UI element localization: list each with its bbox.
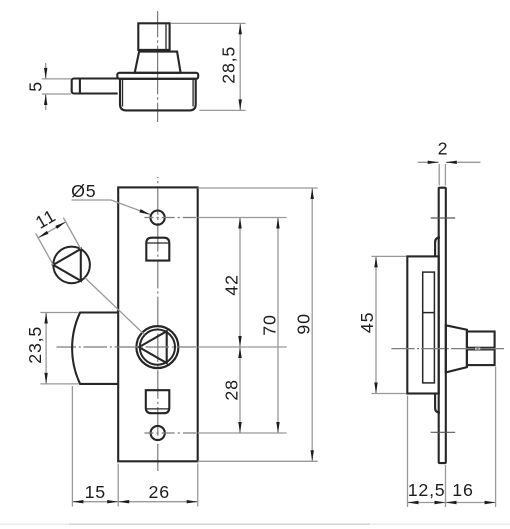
svg-text:28,5: 28,5: [219, 46, 239, 84]
svg-text:Ø5: Ø5: [71, 181, 96, 201]
svg-text:12,5: 12,5: [408, 480, 446, 500]
svg-text:23,5: 23,5: [25, 326, 45, 364]
svg-text:42: 42: [222, 274, 242, 295]
svg-text:5: 5: [25, 81, 45, 92]
svg-text:15: 15: [85, 482, 106, 502]
svg-text:26: 26: [149, 482, 170, 502]
svg-text:16: 16: [452, 480, 473, 500]
svg-text:90: 90: [294, 313, 314, 334]
svg-text:28: 28: [221, 379, 241, 400]
svg-text:70: 70: [259, 314, 279, 335]
svg-text:45: 45: [357, 312, 377, 333]
svg-text:2: 2: [438, 139, 449, 159]
